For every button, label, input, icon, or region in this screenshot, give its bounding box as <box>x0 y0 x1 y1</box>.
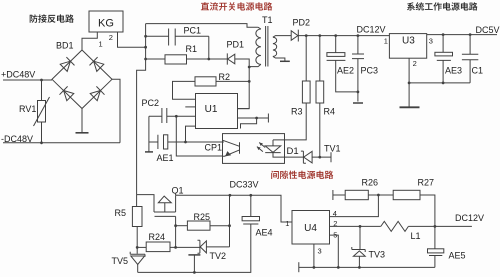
svg-text:TV2: TV2 <box>210 251 227 261</box>
capacitor AE2 (electrolytic) <box>335 36 337 53</box>
svg-text:1: 1 <box>285 219 289 228</box>
wire DC5V rail <box>427 34 497 36</box>
wire PD1 to primary bottom <box>235 59 250 67</box>
svg-text:R5: R5 <box>115 208 127 218</box>
resistor R26 <box>333 194 345 196</box>
svg-text:TV3: TV3 <box>369 249 386 259</box>
svg-text:U3: U3 <box>402 36 415 47</box>
ground (bridge) <box>76 132 89 134</box>
wire U4 pin3 to ground rail <box>313 244 315 267</box>
svg-text:TV5: TV5 <box>112 256 129 266</box>
wire TV2 right <box>206 246 229 248</box>
bridge diode D-c (bottom-left edge) <box>60 86 74 100</box>
svg-text:1: 1 <box>99 40 103 49</box>
svg-text:PC2: PC2 <box>142 98 160 108</box>
wire top rail to T1 primary <box>146 24 258 28</box>
svg-text:R4: R4 <box>324 107 336 117</box>
svg-text:2: 2 <box>413 59 417 68</box>
wire U4 pin2 output <box>330 225 381 227</box>
resistor R5 <box>136 195 138 207</box>
svg-text:R26: R26 <box>362 178 379 188</box>
svg-text:AE4: AE4 <box>256 228 273 238</box>
svg-text:TV1: TV1 <box>324 143 341 153</box>
terminal (R26 input) <box>332 190 334 200</box>
capacitor AE5 (electrolytic) <box>434 226 436 248</box>
capacitor AE1 (electrolytic) <box>149 135 224 149</box>
bridge rectifier BD1 diamond <box>52 50 112 109</box>
wire U1 pin elbow <box>241 118 257 129</box>
svg-text:BD1: BD1 <box>56 41 74 51</box>
svg-text:PD1: PD1 <box>227 40 245 50</box>
terminal (PC2/AE1 ground) <box>145 151 153 153</box>
inductor L1 <box>381 221 409 231</box>
resistor R25 <box>176 225 188 227</box>
svg-text:R1: R1 <box>186 44 198 54</box>
wire U1 right pin 2 <box>238 117 269 119</box>
svg-text:AE3: AE3 <box>445 66 462 76</box>
wire PC1 right drop <box>208 36 210 59</box>
svg-text:2: 2 <box>109 33 113 42</box>
varistor RV1 <box>38 101 46 123</box>
zener diode TV5 <box>130 252 145 265</box>
wire U4 pin5 to ground rail <box>330 235 339 267</box>
svg-text:3: 3 <box>429 37 433 46</box>
resistor R2 <box>195 77 216 86</box>
wire +DC48V rail <box>3 79 52 81</box>
capacitor C1 <box>462 35 478 83</box>
svg-text:AE1: AE1 <box>157 153 174 163</box>
wire U1 feedback vertical to CP1 <box>176 116 222 156</box>
wire U1 right pin to primary <box>238 108 250 110</box>
wire R2 left elbow to U1 <box>173 81 196 99</box>
svg-text:DC12V: DC12V <box>455 213 484 223</box>
zener diode TV3 <box>352 226 365 267</box>
svg-text:U4: U4 <box>304 223 317 234</box>
transformer T1 core <box>266 26 268 67</box>
wire T1 primary bottom lead <box>249 64 261 66</box>
resistor R27 <box>393 190 420 199</box>
wire DC12V feed rail <box>298 35 389 37</box>
wire L1 to DC12V out <box>408 225 472 227</box>
wire KG pin1 to bridge top <box>82 32 97 50</box>
optocoupler CP1 box <box>223 134 285 164</box>
svg-text:CP1: CP1 <box>205 143 223 153</box>
wire bottom-left rail to AE4 <box>138 224 251 272</box>
terminal (U1 pin stub) <box>267 114 269 123</box>
svg-text:RV1: RV1 <box>19 104 36 114</box>
svg-text:R25: R25 <box>194 212 211 222</box>
section title 直流开关电源电路 (red) <box>201 2 272 10</box>
resistor R3 <box>305 36 307 81</box>
svg-text:R27: R27 <box>418 178 435 188</box>
terminal (TV1 wire end) <box>330 152 332 162</box>
capacitor AE4 (electrolytic) <box>250 195 252 216</box>
wire R2 right <box>216 80 249 82</box>
controller U4 <box>292 211 330 245</box>
wire TV5 to bottom rail <box>137 264 139 272</box>
resistor R24 <box>137 246 146 248</box>
svg-text:KG: KG <box>98 18 114 30</box>
wire PC2 ground leg <box>148 116 150 151</box>
resistor R4 <box>319 36 321 81</box>
wire RV1 bottom <box>41 122 43 143</box>
svg-text:C1: C1 <box>472 66 484 76</box>
section title 系统工作电源电路 <box>407 2 478 10</box>
wire U3 pin2 down <box>408 58 410 107</box>
bridge diode D-b (top-right edge) <box>90 57 104 71</box>
svg-text:AE5: AE5 <box>449 250 466 260</box>
capacitor PC1 <box>146 29 209 46</box>
wire -DC48V rail <box>3 142 120 144</box>
transformer T1 primary winding <box>256 29 261 64</box>
wire U4 pin4 to R26/R27 node <box>330 195 379 217</box>
phototransistor (CP1) <box>223 140 240 156</box>
capacitor AE3 (electrolytic) <box>442 35 444 53</box>
capacitor PC3 <box>352 36 364 102</box>
svg-text:U1: U1 <box>205 104 218 115</box>
wire Q1 to DC33V node <box>176 195 292 222</box>
svg-text:1: 1 <box>384 37 388 46</box>
transistor Q1 <box>137 195 176 217</box>
svg-text:L1: L1 <box>411 231 421 241</box>
LED arrows <box>259 143 265 148</box>
svg-text:DC5V: DC5V <box>476 25 500 35</box>
section title 间隙性电源电路 (red) <box>271 171 333 179</box>
wire main bus vertical <box>137 24 146 195</box>
wire T1 secondary bottom <box>273 56 285 61</box>
capacitor PC2 <box>149 108 196 123</box>
svg-text:PD2: PD2 <box>293 18 311 28</box>
ground (U3) <box>400 106 420 108</box>
transformer T1 secondary winding <box>273 37 277 56</box>
zener diode D1 <box>301 151 312 163</box>
diode PD1 <box>227 53 235 64</box>
svg-text:AE2: AE2 <box>337 66 354 76</box>
wire U1 left stub <box>185 106 195 108</box>
terminal (ground rail left end) <box>298 262 300 272</box>
wire R1 left <box>146 58 165 60</box>
wire primary-bottom vertical to U1 <box>238 67 250 109</box>
controller U1 <box>196 94 238 129</box>
wire RV1 top <box>41 80 43 101</box>
resistor R1 <box>165 55 187 64</box>
svg-text:+DC48V: +DC48V <box>1 70 35 80</box>
ground (PC3) <box>353 102 363 104</box>
wire U3 ground rail <box>409 82 470 84</box>
svg-text:T1: T1 <box>262 15 273 25</box>
wire T1 secondary top to PD2 <box>273 36 291 38</box>
wire KG pin2 to bus <box>118 32 146 47</box>
wire Q1 gate down <box>175 216 177 247</box>
LED (CP1) with D1 feedback <box>265 140 284 157</box>
switch KG <box>89 11 123 32</box>
svg-text:DC33V: DC33V <box>230 179 259 189</box>
wire bottom-right ground rail <box>299 266 435 268</box>
wire R25/TV2 vertical to DC33V <box>229 195 231 247</box>
svg-text:DC12V: DC12V <box>357 25 386 35</box>
regulator U3 <box>389 34 426 59</box>
wire bridge right vertex to -rail <box>112 79 120 143</box>
wire AE1 elbow to U1 bottom pin <box>186 126 196 142</box>
diode PD2 <box>291 30 298 42</box>
terminal (bottom rail tap) <box>188 254 200 256</box>
svg-text:PC1: PC1 <box>184 26 202 36</box>
section title 防接反电路 <box>30 14 74 22</box>
svg-text:R24: R24 <box>149 232 166 242</box>
svg-text:Q1: Q1 <box>172 185 184 195</box>
bridge diode D-d (bottom-right edge) <box>90 86 104 100</box>
wire D1 to terminal <box>285 156 332 158</box>
ground (T1 secondary) <box>280 60 290 62</box>
wire bridge bottom to ground <box>81 109 83 133</box>
svg-text:R3: R3 <box>291 107 303 117</box>
svg-text:D1: D1 <box>287 146 299 157</box>
wire R1 right to PD1 <box>187 58 228 60</box>
svg-text:PC3: PC3 <box>361 66 379 76</box>
svg-text:R2: R2 <box>219 72 231 82</box>
svg-text:3: 3 <box>318 246 322 255</box>
zener diode TV2 <box>198 240 207 253</box>
wire T1 primary top lead <box>258 27 261 29</box>
bridge diode D-a (top-left edge) <box>60 57 74 71</box>
